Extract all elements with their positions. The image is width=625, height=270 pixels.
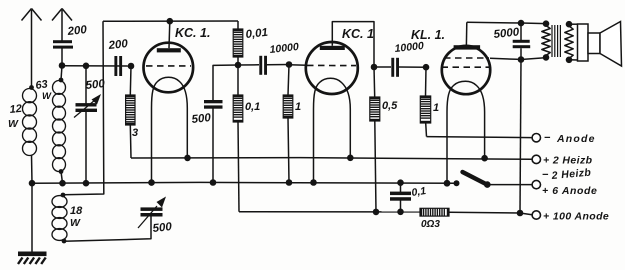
svg-text:0,5: 0,5 — [382, 100, 398, 112]
svg-text:0,01: 0,01 — [245, 27, 269, 41]
transformer TR1 core — [552, 25, 560, 57]
terminal minus Anode — [532, 134, 540, 142]
label minus 2 Heizb — [542, 167, 592, 183]
inductor L2 63 W — [53, 66, 66, 187]
capacitor C6 500 — [204, 65, 238, 186]
antenna AN2 — [52, 9, 72, 41]
label C2 500 — [85, 78, 106, 92]
wire anode rail tube 1 — [103, 18, 238, 25]
label V3 KL.1 — [411, 28, 445, 42]
label minus Anode — [544, 132, 596, 145]
label R6 value — [421, 219, 440, 230]
label R4 0,5 — [382, 100, 398, 112]
wire filament-plus line — [131, 158, 532, 160]
capacitor C10 0,1 — [390, 179, 411, 215]
resistor R1 3 — [126, 66, 135, 158]
node grid tube 1 — [128, 63, 135, 70]
label L3 value — [70, 205, 83, 229]
node grid tube 2 — [286, 61, 293, 68]
wire L3 to C4 — [64, 216, 151, 242]
tube V3 KL.1 — [442, 22, 491, 186]
label plus 2 Heizb — [543, 155, 593, 167]
label R3 1 — [295, 101, 301, 113]
svg-text:+ 2 Heizb: + 2 Heizb — [543, 155, 593, 167]
capacitor C4 500 variable — [138, 197, 166, 229]
svg-text:W: W — [42, 91, 52, 102]
tube V2 KC.1 — [289, 22, 377, 186]
wire antenna-1 down — [31, 155, 34, 183]
wire anode rail output — [467, 20, 546, 27]
label C4 500 — [152, 221, 173, 235]
svg-text:KC. 1.: KC. 1. — [175, 26, 210, 40]
label C5 0,01 — [245, 27, 269, 41]
svg-text:18: 18 — [70, 205, 83, 217]
terminal plus 100 Anode — [532, 211, 540, 219]
capacitor C9 5000 — [513, 23, 531, 63]
label C8 10000 — [394, 40, 424, 55]
wire plus100 vertical — [520, 58, 545, 213]
wire minus-anode line — [427, 137, 533, 138]
capacitor C5 0,01 — [233, 21, 243, 68]
svg-text:W: W — [70, 217, 81, 229]
label C3 200 — [107, 38, 129, 52]
node antenna junction — [59, 62, 66, 69]
resistor R5 1 — [420, 67, 430, 136]
svg-text:KC. 1: KC. 1 — [342, 27, 374, 41]
svg-text:200: 200 — [107, 38, 129, 52]
label V1 KC.1 — [175, 26, 210, 40]
label L2 value — [35, 78, 52, 102]
wire plus100 line — [239, 210, 532, 217]
capacitor C7 10000 — [238, 56, 289, 75]
label R5 1 — [433, 102, 439, 114]
label C9 5000 — [493, 26, 520, 41]
terminal minus 2 Heizb plus 6 Anode — [532, 180, 540, 188]
switch S1 — [444, 172, 532, 188]
resistor R2 0,1 — [233, 65, 243, 212]
svg-text:+ 100 Anode: + 100 Anode — [543, 211, 609, 223]
svg-text:500: 500 — [152, 221, 173, 235]
svg-text:1: 1 — [433, 102, 439, 114]
svg-text:+ 6 Anode: + 6 Anode — [542, 185, 597, 197]
antenna AN1 — [22, 9, 42, 88]
label V2 KC.1 — [342, 27, 374, 41]
label R1 3 — [132, 127, 138, 139]
capacitor C3 200 series — [114, 56, 122, 76]
svg-text:0Ω3: 0Ω3 — [421, 219, 440, 230]
svg-text:200: 200 — [66, 24, 88, 38]
resistor R3 1 — [283, 65, 293, 186]
svg-text:500: 500 — [191, 112, 212, 126]
label L1 value — [8, 103, 22, 130]
transformer TR1 secondary — [565, 21, 573, 63]
label plus 100 Anode — [543, 211, 609, 223]
resistor R4 0,5 — [370, 67, 380, 215]
svg-text:3: 3 — [132, 127, 138, 139]
label plus 6 Anode — [542, 185, 597, 197]
ground — [18, 183, 47, 264]
svg-text:0,1: 0,1 — [411, 185, 427, 199]
capacitor C1 200 — [53, 40, 73, 65]
svg-text:−: − — [544, 132, 551, 144]
resistor R6 0o3 — [420, 208, 449, 216]
wire filament-minus bus — [29, 180, 457, 187]
terminal plus 2 Heizb — [532, 155, 540, 163]
svg-text:W: W — [8, 118, 19, 130]
speaker LS1 — [569, 22, 622, 67]
svg-text:12: 12 — [9, 103, 22, 116]
wire grid bus tube 1 — [62, 63, 131, 70]
label C7 10000 — [269, 41, 299, 56]
wire anode feedback — [63, 21, 104, 195]
label R2 0,1 — [245, 101, 260, 113]
svg-text:1: 1 — [295, 101, 301, 113]
capacitor C2 500 variable — [74, 66, 101, 187]
svg-text:Anode: Anode — [556, 133, 596, 145]
svg-text:−: − — [542, 169, 549, 181]
node grid tube 3 — [423, 64, 430, 71]
capacitor C8 10000 — [374, 58, 426, 77]
svg-text:0,1: 0,1 — [245, 101, 260, 113]
inductor L1 12 W — [23, 85, 37, 155]
svg-text:KL. 1.: KL. 1. — [411, 28, 445, 42]
label C10 0,1 — [411, 185, 427, 199]
label C6 500 — [191, 112, 212, 126]
label C1 200 — [66, 24, 88, 38]
inductor L3 18 W — [52, 193, 67, 244]
transformer TR1 primary — [542, 20, 550, 60]
tube V1 KC.1 — [144, 21, 194, 186]
svg-text:63: 63 — [35, 78, 49, 92]
wire screen grid — [490, 58, 521, 59]
